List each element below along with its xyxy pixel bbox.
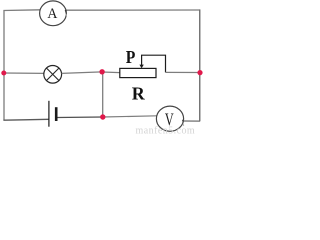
- wire: middle node to rheostat left end: [102, 71, 120, 74]
- lamp EL1: [44, 66, 62, 84]
- wire: bottom node to voltmeter: [103, 116, 157, 117]
- rheostat R body: [120, 68, 156, 77]
- ammeter U1: [40, 1, 67, 26]
- svg-text:R: R: [132, 84, 146, 104]
- wire: right vertical (top-right corner down to voltmeter branch): [199, 9, 201, 121]
- svg-text:A: A: [47, 6, 57, 22]
- junction: middle node: [99, 69, 104, 74]
- wire: top side, ammeter to top-right corner: [66, 9, 200, 11]
- wire: middle row, lamp to middle node: [62, 72, 102, 74]
- junction: bottom node: [100, 114, 105, 119]
- wire: top side, corner to ammeter: [3, 9, 40, 12]
- tick mark at voltmeter right terminal: [182, 120, 184, 126]
- wire: bottom-left corner to battery: [3, 118, 48, 121]
- junction: left node: [1, 71, 6, 76]
- wire: left vertical (top-left corner down to bottom-left corner): [3, 11, 5, 121]
- junction: right node: [197, 70, 202, 75]
- tick mark at ammeter right terminal: [65, 10, 67, 16]
- svg-text:manfen5.com: manfen5.com: [136, 126, 196, 136]
- wire: vertical connector between middle node and bottom node: [102, 72, 104, 117]
- wire: wiper branch to right node: [166, 71, 201, 73]
- svg-text:P: P: [126, 47, 136, 67]
- wire: battery to bottom node: [58, 116, 103, 119]
- battery BT1: [49, 101, 56, 127]
- voltmeter U2: [156, 106, 183, 131]
- wire: voltmeter to right vertical: [184, 120, 201, 122]
- wire: middle row, left node to lamp: [4, 72, 44, 74]
- rheostat wiper arrow P: [139, 55, 165, 72]
